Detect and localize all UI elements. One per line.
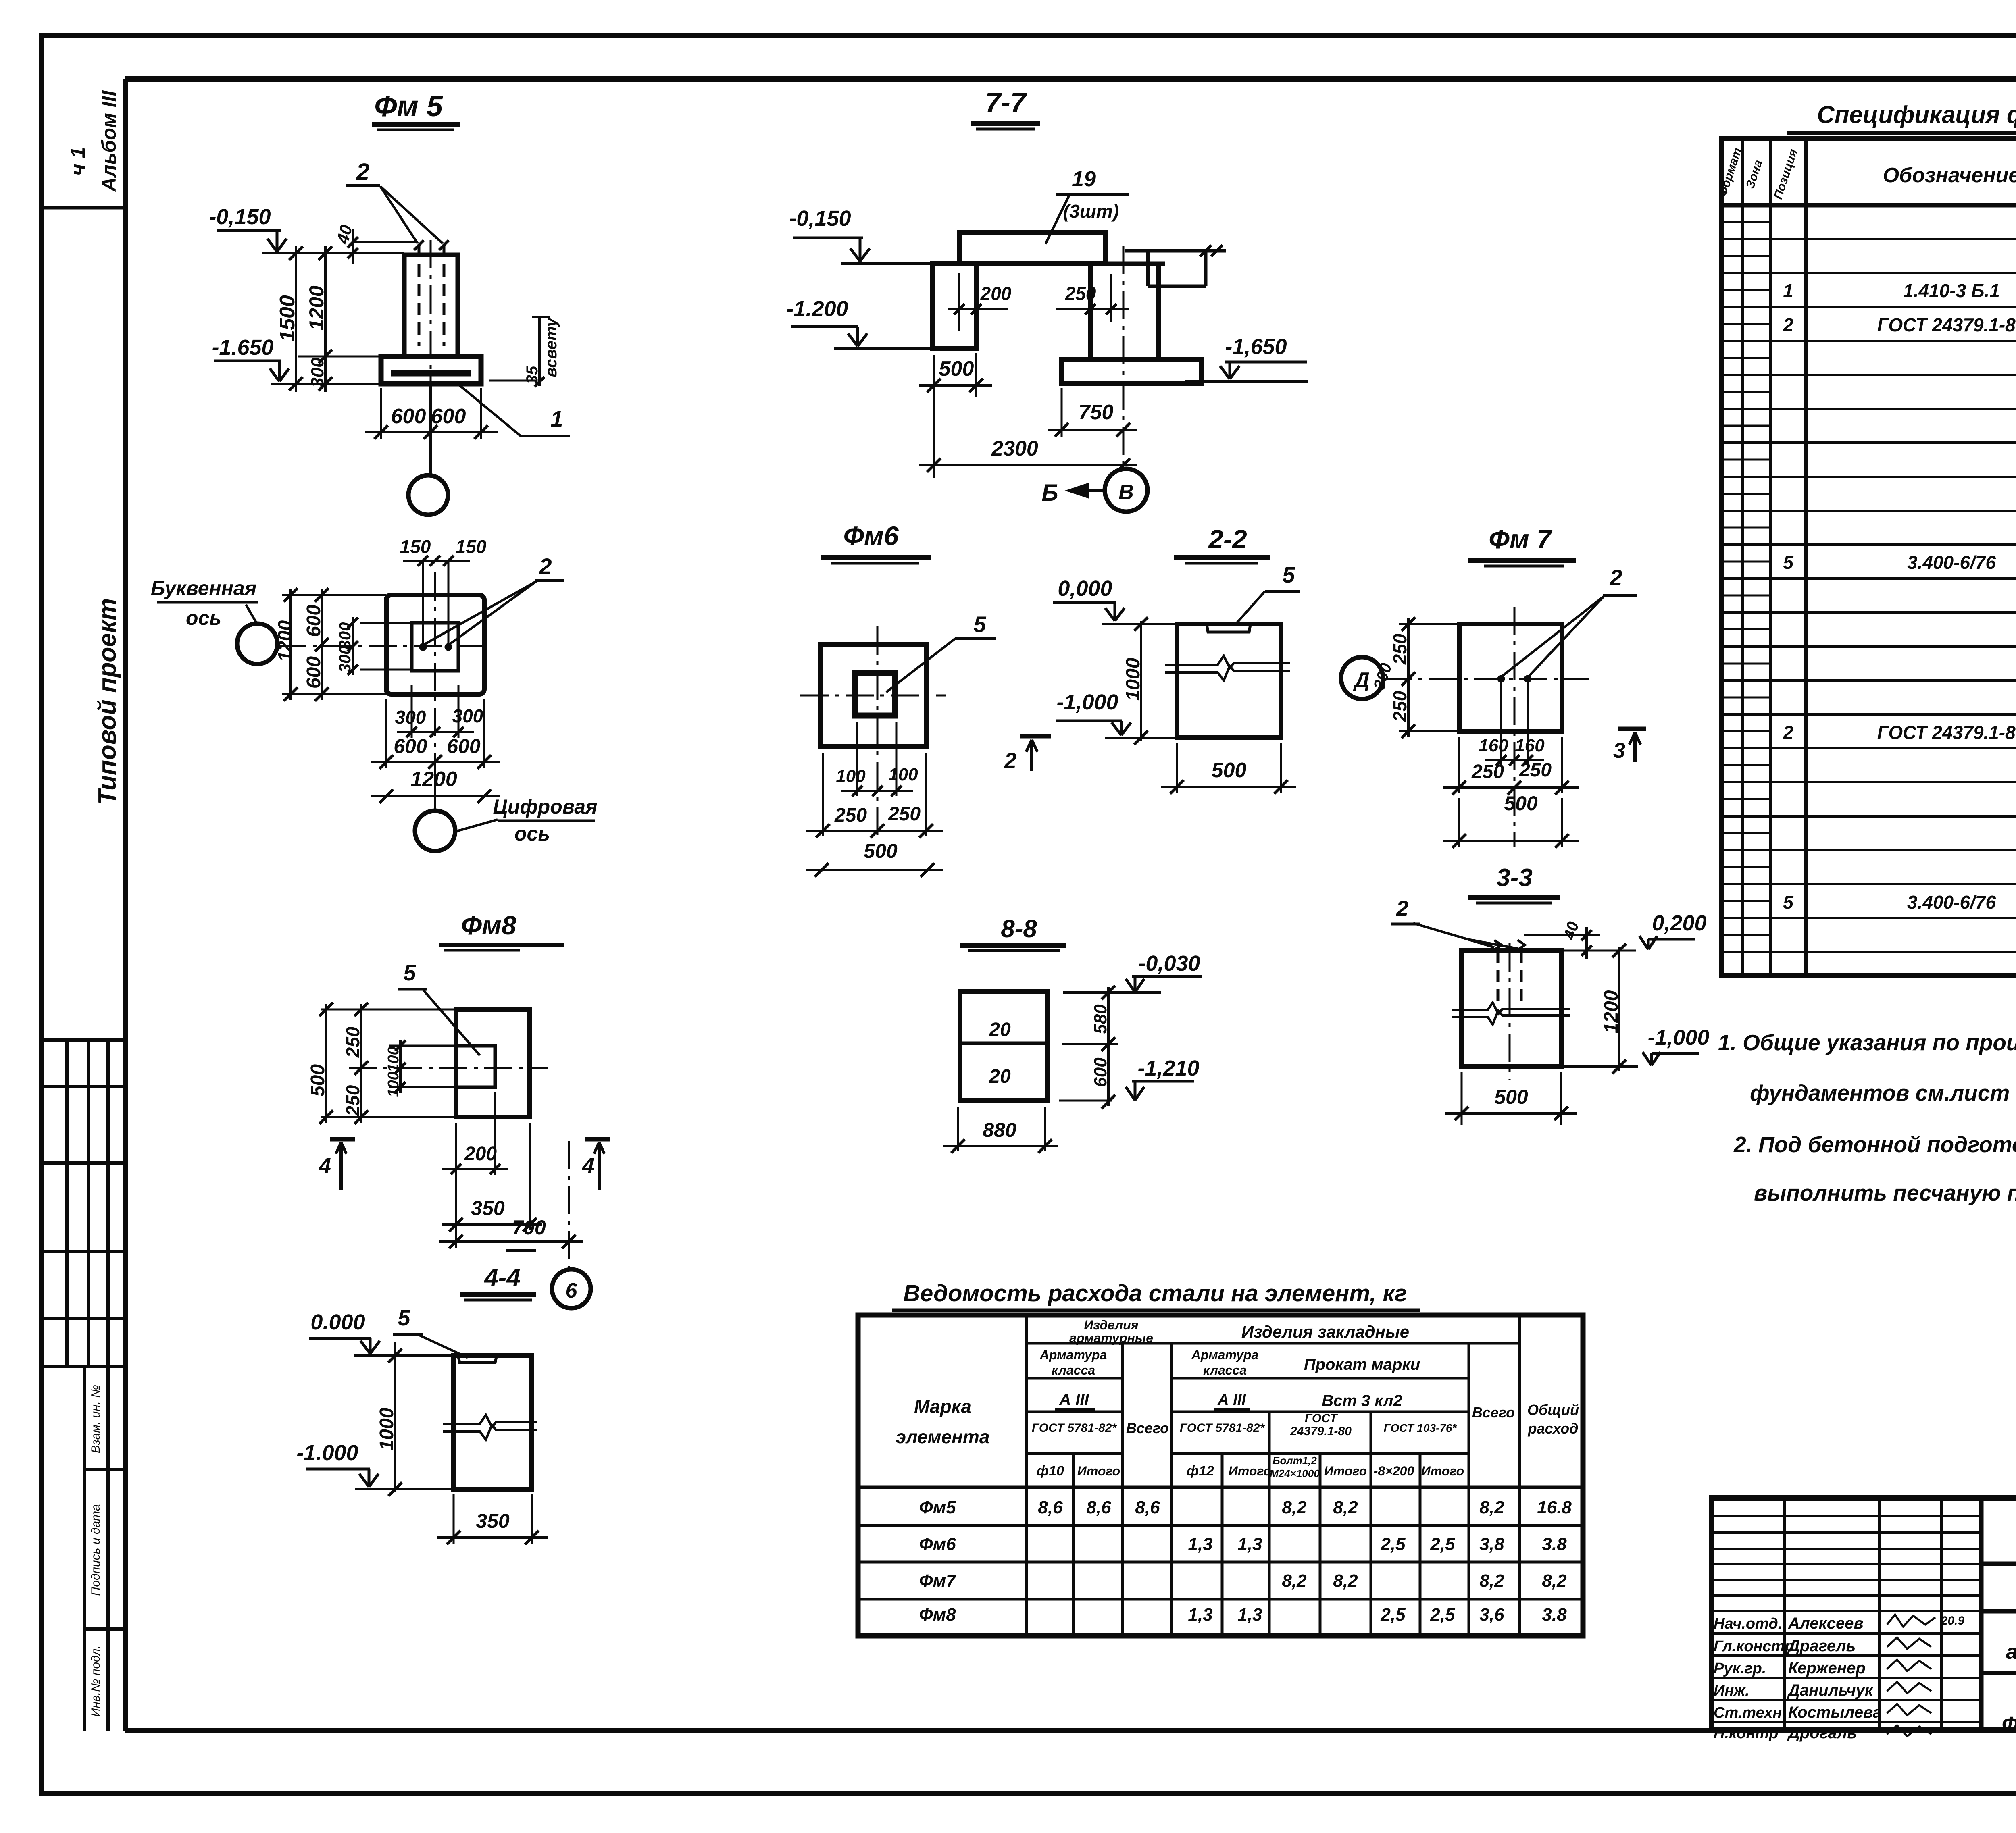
4-4 embed notch <box>458 1357 496 1363</box>
svg-text:600: 600 <box>303 656 325 689</box>
dim 700 of Фм8 <box>439 1240 583 1243</box>
svg-text:2,5: 2,5 <box>1380 1605 1406 1625</box>
svg-text:Инж.: Инж. <box>1714 1682 1749 1699</box>
svg-text:2: 2 <box>1783 722 1793 743</box>
dim 300 300 bottom of Фм5 plan <box>411 685 413 738</box>
svg-text:Фм5: Фм5 <box>919 1498 956 1517</box>
svg-text:ГОСТ 103-76*: ГОСТ 103-76* <box>1384 1422 1457 1434</box>
svg-text:ось: ось <box>514 822 550 845</box>
dim 2300 of 7-7 <box>919 464 1137 466</box>
svg-text:Фм7: Фм7 <box>919 1571 957 1591</box>
dim 40 of 3-3 <box>1524 934 1600 936</box>
svg-text:200: 200 <box>464 1143 497 1165</box>
svg-text:250: 250 <box>1519 759 1552 781</box>
dim 200 of Фм8 <box>494 1092 496 1175</box>
svg-text:1. Общие указания по произв: 1. Общие указания по производству работ … <box>1718 1030 2016 1055</box>
Фм6 footing outline <box>821 644 926 747</box>
section marker 4 left <box>330 1137 355 1142</box>
svg-text:4: 4 <box>319 1154 331 1178</box>
Фм7 vertical centerline <box>1514 607 1516 847</box>
svg-text:Изделия закладные: Изделия закладные <box>1241 1322 1409 1341</box>
svg-text:8,2: 8,2 <box>1282 1498 1307 1517</box>
title block Цех cell bottom <box>1981 1671 2016 1675</box>
svg-text:ось: ось <box>186 607 221 629</box>
dim 600 600 bottom of Фм5 elevation <box>380 388 382 439</box>
svg-text:Д: Д <box>1353 668 1370 692</box>
Фм5 plan horizontal axis <box>278 645 489 647</box>
svg-text:-1,210: -1,210 <box>1137 1056 1199 1080</box>
svg-text:2: 2 <box>1609 565 1622 590</box>
svg-text:3-3: 3-3 <box>1496 864 1533 892</box>
dim 100 100 of Фм8 embed <box>399 1040 402 1093</box>
svg-text:В: В <box>1118 481 1134 504</box>
svg-text:Арматура: Арматура <box>1191 1348 1259 1362</box>
spec table vertical lines <box>1741 139 1744 976</box>
svg-text:Изделия: Изделия <box>1084 1318 1138 1332</box>
Фм5 plan footing outline <box>386 595 484 694</box>
svg-text:300: 300 <box>452 705 483 726</box>
svg-text:150: 150 <box>456 536 487 557</box>
svg-text:Рук.гр.: Рук.гр. <box>1714 1660 1766 1677</box>
svg-text:Итого: Итого <box>1229 1464 1271 1478</box>
svg-text:Итого: Итого <box>1421 1464 1464 1478</box>
7-7 axis centerline <box>1123 246 1125 469</box>
dim 600 600 bottom of Фм5 plan <box>385 699 387 768</box>
title block outer box <box>1712 1498 2016 1729</box>
section marker 2 up-arrow <box>1020 734 1051 739</box>
signature scribble 2 <box>1887 1637 1931 1649</box>
svg-text:ГОСТ: ГОСТ <box>1305 1412 1338 1425</box>
Фм6 vertical centerline <box>877 626 879 838</box>
svg-text:5: 5 <box>973 612 986 637</box>
3-3 vertical centerline <box>1509 943 1511 1080</box>
svg-text:2: 2 <box>539 553 552 579</box>
svg-text:5: 5 <box>403 960 416 985</box>
svg-text:250: 250 <box>834 805 867 826</box>
svg-text:-0,150: -0,150 <box>789 206 851 231</box>
svg-text:8,2: 8,2 <box>1333 1571 1358 1591</box>
8-8 middle joint line <box>960 1042 1047 1045</box>
svg-text:250: 250 <box>1471 761 1504 782</box>
svg-text:5: 5 <box>1282 562 1295 587</box>
dim 1200 left of Фм5 plan <box>289 589 292 700</box>
sidebar cell divider under album cell <box>42 206 125 210</box>
axis circle 6 of Фм8 <box>552 1269 591 1308</box>
svg-text:600: 600 <box>391 405 426 428</box>
svg-text:1: 1 <box>1783 280 1793 301</box>
svg-text:600: 600 <box>1091 1057 1110 1087</box>
spec table narrow column half lines <box>1722 221 1770 223</box>
svg-text:Дрогаль: Дрогаль <box>1787 1724 1857 1742</box>
svg-text:3,6: 3,6 <box>1479 1605 1504 1625</box>
svg-text:А III: А III <box>1217 1392 1246 1409</box>
svg-text:Фм6: Фм6 <box>843 521 899 551</box>
svg-text:500: 500 <box>1212 759 1247 782</box>
svg-text:2: 2 <box>1396 897 1408 921</box>
svg-text:1200: 1200 <box>305 285 328 330</box>
svg-text:-1.000: -1.000 <box>296 1441 358 1465</box>
svg-text:7-7: 7-7 <box>985 87 1027 118</box>
svg-text:8,2: 8,2 <box>1479 1571 1504 1591</box>
title block main vertical divider <box>1979 1498 1984 1729</box>
svg-text:Фм6: Фм6 <box>919 1534 956 1554</box>
dim 300 300 small left of Фм5 plan <box>352 617 354 675</box>
7-7 left pier outline <box>933 264 976 349</box>
svg-text:Общий: Общий <box>1527 1402 1579 1418</box>
svg-text:Фм8: Фм8 <box>461 910 516 940</box>
svg-text:-1,000: -1,000 <box>1056 690 1118 714</box>
sidebar stamp grid <box>42 1038 125 1042</box>
title block left grid verticals <box>1783 1498 1786 1729</box>
dim 500 left of Фм8 <box>325 1004 327 1123</box>
svg-text:всвету: всвету <box>542 317 560 377</box>
svg-text:5: 5 <box>1783 552 1794 573</box>
dim 500 of 3-3 <box>1461 1072 1463 1125</box>
svg-text:100: 100 <box>836 766 866 786</box>
Фм8 horizontal axis <box>349 1067 548 1069</box>
dim 40 bolt stickout <box>354 241 418 243</box>
svg-text:250: 250 <box>1065 283 1096 304</box>
svg-text:-1,650: -1,650 <box>1225 335 1287 359</box>
Фм7 horizontal axis <box>1384 678 1589 680</box>
svg-text:100: 100 <box>888 765 918 784</box>
dim 1200 of 3-3 <box>1618 947 1620 1071</box>
spec table outer box <box>1722 139 2016 976</box>
signature scribble 6 <box>1887 1725 1931 1736</box>
7-7 right column outline <box>1088 264 1093 360</box>
steel table header lines <box>1026 1342 1520 1345</box>
title block left grid thin rows <box>1712 1515 1981 1517</box>
svg-text:8,2: 8,2 <box>1542 1571 1567 1591</box>
svg-text:выполнить песчаную подушку: выполнить песчаную подушку до глубины пр… <box>1754 1180 2016 1205</box>
title block middle line <box>1981 1609 2016 1614</box>
svg-text:Спецификация фундаментов Фм: Спецификация фундаментов Фм 5 ÷ Фм 8 <box>1817 101 2016 128</box>
svg-text:Подпись и дата: Подпись и дата <box>89 1504 102 1596</box>
svg-text:500: 500 <box>1494 1086 1528 1108</box>
Фм5 plan column outline <box>412 623 458 671</box>
svg-text:Керженер: Керженер <box>1788 1659 1866 1677</box>
svg-text:250: 250 <box>342 1085 363 1116</box>
svg-text:5: 5 <box>1783 892 1794 913</box>
svg-text:3,8: 3,8 <box>1479 1534 1504 1554</box>
svg-text:ГОСТ 24379.1-80: ГОСТ 24379.1-80 <box>1877 722 2016 743</box>
dim 750 of 7-7 <box>1061 388 1063 437</box>
Фм6 embed item outline <box>855 673 895 716</box>
dim 500 of Фм6 <box>806 869 943 871</box>
dim 500 of 2-2 <box>1176 743 1178 793</box>
dim 250 in 7-7 <box>1056 308 1129 310</box>
title block staff row lines <box>1712 1610 1981 1612</box>
svg-text:350: 350 <box>471 1197 505 1219</box>
svg-text:19: 19 <box>1072 167 1096 191</box>
svg-text:35: 35 <box>523 366 541 384</box>
svg-text:Всего: Всего <box>1126 1420 1169 1436</box>
dim 150 150 top of Фм5 plan <box>403 560 470 562</box>
steel table outer box <box>858 1315 1583 1636</box>
svg-text:Фм8: Фм8 <box>919 1605 956 1625</box>
sidebar cell Взам. ин. № <box>83 1367 86 1731</box>
steel table vertical lines <box>1025 1315 1028 1636</box>
4-4 break lines <box>443 1415 537 1427</box>
svg-text:Типовой проект: Типовой проект <box>94 598 121 805</box>
svg-text:расход: расход <box>1528 1420 1579 1437</box>
dim 880 of 8-8 <box>957 1107 959 1151</box>
dim 580 600 right of 8-8 <box>1107 987 1110 1106</box>
letter axis circle <box>237 624 277 664</box>
7-7 adjacent column top right <box>1125 249 1226 253</box>
svg-text:1,3: 1,3 <box>1237 1605 1262 1625</box>
leader 1 to mesh <box>458 384 521 436</box>
7-7 top slab outline <box>959 233 1105 264</box>
svg-text:класса: класса <box>1052 1363 1095 1377</box>
svg-text:160: 160 <box>1515 736 1545 755</box>
svg-text:500: 500 <box>939 357 974 381</box>
signature scribble 5 <box>1887 1704 1931 1715</box>
dim 250 250 bottom of Фм7 <box>1458 737 1460 793</box>
svg-text:8,2: 8,2 <box>1282 1571 1307 1591</box>
svg-text:Вст 3 кл2: Вст 3 кл2 <box>1322 1392 1402 1410</box>
section marker 3 up-arrow <box>1618 727 1646 731</box>
svg-text:8,2: 8,2 <box>1333 1498 1358 1517</box>
svg-text:-1.650: -1.650 <box>212 335 273 360</box>
2-2 break lines <box>1165 656 1290 668</box>
7-7 bolt line in right column <box>1110 274 1112 322</box>
svg-text:700: 700 <box>512 1216 546 1239</box>
axis line to circle <box>429 384 432 475</box>
axis circle В of 7-7 <box>1105 469 1148 512</box>
svg-text:-1.200: -1.200 <box>786 297 848 321</box>
svg-text:300: 300 <box>336 622 354 649</box>
svg-text:Ведомость расхода стали на: Ведомость расхода стали на элемент, кг <box>903 1280 1407 1307</box>
svg-text:2,5: 2,5 <box>1380 1534 1406 1554</box>
Фм8 outline <box>456 1009 530 1117</box>
svg-text:1,3: 1,3 <box>1188 1534 1212 1554</box>
svg-text:ч 1: ч 1 <box>67 147 89 176</box>
svg-text:Ст.техн: Ст.техн <box>1714 1704 1782 1721</box>
svg-text:1,3: 1,3 <box>1237 1534 1262 1554</box>
dim 1000 of 4-4 <box>394 1342 396 1492</box>
svg-text:8-8: 8-8 <box>1001 915 1037 943</box>
svg-text:Алексеев: Алексеев <box>1788 1615 1864 1632</box>
svg-text:3.8: 3.8 <box>1542 1534 1567 1554</box>
axis circle bottom of Фм5 <box>408 475 448 515</box>
svg-text:1500: 1500 <box>276 295 299 342</box>
svg-text:Марка: Марка <box>914 1396 971 1417</box>
svg-text:0,000: 0,000 <box>1058 576 1112 601</box>
steel table data row lines <box>858 1524 1583 1527</box>
svg-text:0,200: 0,200 <box>1652 911 1706 935</box>
3-3 pier outline <box>1462 951 1561 1067</box>
inner frame top line <box>125 76 2016 82</box>
svg-text:ГОСТ 24379.1-80: ГОСТ 24379.1-80 <box>1877 314 2016 335</box>
svg-text:8,6: 8,6 <box>1038 1498 1063 1517</box>
7-7 right footing outline <box>1062 360 1201 383</box>
svg-text:2: 2 <box>1783 314 1793 335</box>
svg-text:300: 300 <box>395 707 426 728</box>
svg-text:Итого: Итого <box>1324 1464 1367 1478</box>
svg-text:ГОСТ 5781-82*: ГОСТ 5781-82* <box>1032 1421 1117 1435</box>
svg-text:20: 20 <box>989 1066 1011 1087</box>
section marker 4 right <box>585 1137 610 1142</box>
4-4 pier outline <box>454 1356 532 1489</box>
svg-text:-0,150: -0,150 <box>209 205 271 229</box>
svg-text:-1,000: -1,000 <box>1647 1026 1709 1050</box>
svg-text:580: 580 <box>1091 1004 1110 1034</box>
svg-text:-8×200: -8×200 <box>1374 1464 1414 1478</box>
svg-text:Б: Б <box>1041 480 1058 506</box>
svg-text:8,2: 8,2 <box>1479 1498 1504 1517</box>
svg-text:200: 200 <box>980 283 1012 304</box>
svg-text:1,3: 1,3 <box>1188 1605 1212 1625</box>
svg-text:А III: А III <box>1059 1391 1089 1409</box>
number axis circle of Фм5 plan <box>415 811 455 851</box>
svg-text:100: 100 <box>385 1072 402 1097</box>
svg-text:2. Под бетонной подготовкой: 2. Под бетонной подготовкой фундаментов … <box>1733 1132 2016 1157</box>
inner frame bottom line <box>125 1728 2016 1733</box>
svg-text:Прокат марки: Прокат марки <box>1304 1356 1420 1373</box>
dim 500 of Фм7 <box>1458 798 1460 847</box>
svg-text:24379.1-80: 24379.1-80 <box>1290 1425 1352 1438</box>
signature scribble 3 <box>1887 1660 1931 1671</box>
svg-text:250: 250 <box>342 1026 363 1058</box>
svg-text:600: 600 <box>303 605 325 637</box>
3-3 bolts dashed <box>1497 951 1500 1007</box>
axis line down to circle 6 <box>568 1141 570 1269</box>
svg-text:600: 600 <box>447 735 481 757</box>
sidebar cell Подпись и дата <box>85 1627 125 1631</box>
svg-text:Обозначение: Обозначение <box>1883 164 2016 187</box>
Фм7 footing outline <box>1459 624 1562 731</box>
svg-text:880: 880 <box>983 1119 1016 1141</box>
leader to letter-axis circle <box>246 605 256 623</box>
svg-text:6: 6 <box>566 1279 578 1302</box>
Фм7 bolts <box>1497 675 1505 682</box>
svg-text:Драгель: Драгель <box>1787 1637 1856 1655</box>
svg-text:2-2: 2-2 <box>1208 524 1247 554</box>
Фм5 column centerline <box>430 240 432 409</box>
svg-text:500: 500 <box>307 1064 329 1096</box>
svg-text:250: 250 <box>888 803 921 825</box>
dim 100 100 of Фм6 <box>856 722 858 796</box>
svg-text:ф10: ф10 <box>1037 1463 1064 1479</box>
signature scribble 1 <box>1887 1615 1935 1627</box>
svg-text:750: 750 <box>1079 401 1114 424</box>
svg-text:3: 3 <box>1613 739 1625 763</box>
dim 1000 of 2-2 <box>1140 621 1142 741</box>
svg-text:автомобильных шин.: автомобильных шин. <box>2006 1640 2016 1664</box>
Фм5 footing outline <box>381 356 481 384</box>
svg-text:Данильчук: Данильчук <box>1787 1681 1874 1699</box>
spec table header bottom line <box>1722 203 2016 208</box>
svg-text:2,5: 2,5 <box>1430 1605 1455 1625</box>
dim chain 1500 <box>295 246 297 392</box>
svg-text:Буквенная: Буквенная <box>151 577 256 599</box>
dim 160 160 of Фм7 <box>1485 759 1544 761</box>
dim 200 in 7-7 <box>958 273 960 331</box>
svg-text:Цифровая: Цифровая <box>493 795 597 818</box>
dim 500 under 7-7 left pier <box>933 355 935 478</box>
title block ТП cell bottom <box>1981 1562 2016 1566</box>
svg-text:500: 500 <box>864 840 898 862</box>
svg-text:Альбом III: Альбом III <box>98 90 120 192</box>
svg-text:250: 250 <box>1389 633 1410 665</box>
svg-text:160: 160 <box>1479 736 1508 755</box>
svg-text:300: 300 <box>308 358 327 387</box>
dim 600 600 left of Фм5 plan <box>321 589 323 700</box>
2-2 embed notch <box>1207 625 1250 632</box>
svg-text:М24×1000: М24×1000 <box>1270 1467 1320 1479</box>
svg-text:16.8: 16.8 <box>1537 1498 1572 1517</box>
spec table row lines <box>1722 238 2016 240</box>
svg-text:100: 100 <box>385 1047 402 1072</box>
svg-text:элемента: элемента <box>896 1426 990 1447</box>
svg-text:600: 600 <box>431 405 466 428</box>
signature scribble 4 <box>1887 1682 1931 1693</box>
svg-text:500: 500 <box>1504 792 1538 815</box>
dim 250 250 of Фм6 <box>822 753 824 836</box>
svg-text:3.400-6/76: 3.400-6/76 <box>1907 552 1996 573</box>
2-2 pier outline <box>1177 624 1281 738</box>
axis circle Д <box>1341 657 1383 699</box>
Фм6 horizontal axis <box>800 695 946 697</box>
svg-text:1000: 1000 <box>1123 657 1144 701</box>
svg-text:Болт1,2: Болт1,2 <box>1272 1454 1317 1467</box>
svg-text:5: 5 <box>398 1305 410 1330</box>
svg-text:Взам. ин. №: Взам. ин. № <box>89 1385 102 1453</box>
svg-text:150: 150 <box>400 536 431 557</box>
dim 350 of Фм8 <box>455 1123 457 1248</box>
svg-text:600: 600 <box>394 735 427 757</box>
dim 1200 bottom of Фм5 plan <box>371 795 500 797</box>
svg-text:0.000: 0.000 <box>310 1310 365 1334</box>
svg-text:Н.контр: Н.контр <box>1714 1725 1778 1742</box>
svg-text:Инв.№ подл.: Инв.№ подл. <box>89 1645 102 1717</box>
Фм5 plan bolts <box>419 643 427 651</box>
svg-text:4: 4 <box>582 1154 594 1178</box>
dim 250 250 left of Фм7 <box>1407 618 1410 737</box>
svg-text:ГОСТ 5781-82*: ГОСТ 5781-82* <box>1180 1421 1265 1435</box>
svg-text:Итого: Итого <box>1077 1464 1120 1478</box>
svg-text:2: 2 <box>356 159 369 185</box>
svg-text:1200: 1200 <box>1601 990 1622 1033</box>
svg-text:ф12: ф12 <box>1187 1463 1214 1479</box>
svg-text:2300: 2300 <box>991 437 1038 460</box>
dim 350 of 4-4 <box>453 1494 455 1544</box>
svg-text:фундаментов см.лист 3: фундаментов см.лист 3 <box>1750 1080 2016 1105</box>
svg-text:Нач.отд.: Нач.отд. <box>1714 1615 1782 1632</box>
svg-text:Арматура: Арматура <box>1039 1348 1107 1362</box>
svg-text:4-4: 4-4 <box>483 1264 521 1292</box>
svg-text:2: 2 <box>1004 749 1016 773</box>
dim 250 250 left of Фм8 <box>360 1004 362 1123</box>
dim chain 1200 / 300 <box>324 246 327 392</box>
dim 35 в свету right <box>489 380 536 382</box>
svg-text:1200: 1200 <box>274 620 295 662</box>
Фм8 embed rect open left <box>456 1046 495 1087</box>
svg-text:Гл.констр: Гл.констр <box>1714 1638 1794 1655</box>
svg-text:1000: 1000 <box>376 1407 398 1450</box>
svg-text:Фм 5: Фм 5 <box>374 90 443 123</box>
svg-text:(3шт): (3шт) <box>1063 201 1119 222</box>
svg-text:8,6: 8,6 <box>1086 1498 1111 1517</box>
svg-text:1.410-3 Б.1: 1.410-3 Б.1 <box>1903 280 2000 301</box>
svg-text:1: 1 <box>550 406 563 431</box>
inner frame left line <box>123 79 128 1731</box>
svg-text:2,5: 2,5 <box>1430 1534 1455 1554</box>
8-8 block outline <box>960 991 1047 1101</box>
svg-text:класса: класса <box>1203 1363 1247 1377</box>
svg-text:-0,030: -0,030 <box>1138 951 1200 976</box>
